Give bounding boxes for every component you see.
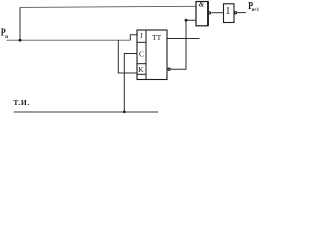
op AND gate U2 box bbox=[196, 2, 208, 26]
wire Pi horizontal bbox=[7, 39, 131, 41]
wire AND output to 1-box bbox=[211, 12, 223, 14]
wire jog to J input bbox=[130, 35, 137, 40]
clock line T.I. (gray) bbox=[14, 111, 159, 113]
wire notQ output to AND gate input 2 bbox=[171, 20, 196, 69]
flip-flop cell divider under C bbox=[137, 63, 146, 65]
flip-flop left column divider bbox=[145, 30, 147, 80]
wire top from left vertical to AND gate input 1 bbox=[20, 6, 196, 7]
svg-text:J: J bbox=[140, 31, 143, 40]
svg-text:C: C bbox=[139, 49, 144, 58]
node junction dot clock vertical / T.I. line bbox=[123, 111, 126, 114]
svg-text:TT: TT bbox=[152, 33, 162, 42]
svg-text:&: & bbox=[199, 1, 205, 9]
flip-flop cell divider under K bbox=[137, 73, 146, 75]
inversion bubble at AND output bbox=[208, 12, 210, 14]
amplifier U3 box "1" bbox=[224, 4, 235, 23]
svg-text:и+1: и+1 bbox=[252, 8, 260, 13]
svg-text:и: и bbox=[5, 35, 8, 40]
wire left vertical branch bbox=[19, 7, 21, 40]
wire branch down to K input bbox=[118, 40, 137, 73]
flip-flop cell divider under J bbox=[137, 41, 146, 43]
wire 1-box output to Pi+1 label bbox=[237, 12, 246, 14]
svg-text:1: 1 bbox=[225, 6, 230, 17]
node junction dot at AND gate input 2 bbox=[185, 19, 188, 22]
flip-flop U1 (JK trigger) body bbox=[137, 30, 167, 80]
wire C input and clock vertical bbox=[124, 54, 137, 113]
inversion bubble at 1-box output bbox=[235, 12, 237, 14]
node junction dot left vertical / Pi wire bbox=[19, 39, 22, 42]
svg-text:Т.И.: Т.И. bbox=[13, 98, 30, 107]
inversion bubble at flip-flop notQ output bbox=[168, 68, 170, 70]
wire Q output bbox=[167, 38, 200, 40]
svg-text:K: K bbox=[138, 65, 144, 74]
